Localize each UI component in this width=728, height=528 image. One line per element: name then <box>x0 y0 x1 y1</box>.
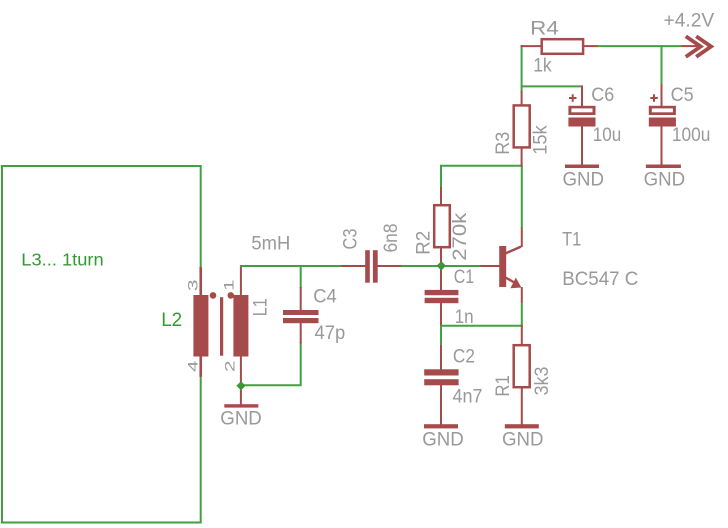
wire R2 top to R3 node <box>441 166 522 188</box>
wire R3 top column <box>521 45 523 92</box>
supply +4.2V symbol <box>682 36 712 57</box>
resistor R2 <box>434 187 450 291</box>
wire to C6 <box>521 85 582 87</box>
svg-text:C3: C3 <box>341 229 362 250</box>
svg-text:BC547 C: BC547 C <box>562 269 638 290</box>
resistor R3 <box>514 91 530 167</box>
svg-text:L1: L1 <box>251 298 272 316</box>
capacitor C5 (polarized) <box>649 84 676 165</box>
capacitor C1 <box>425 290 459 325</box>
wire C5 drop <box>661 45 663 85</box>
svg-text:R3: R3 <box>493 132 514 155</box>
svg-text:3: 3 <box>185 279 201 291</box>
capacitor C4 <box>283 287 319 344</box>
svg-text:C1: C1 <box>454 267 475 288</box>
svg-text:+4.2V: +4.2V <box>664 11 715 32</box>
svg-text:100u: 100u <box>672 125 711 146</box>
svg-text:R4: R4 <box>530 18 559 39</box>
wire L1 top to C3 <box>240 265 342 267</box>
capacitor C2 <box>424 345 458 425</box>
inductor L2 winding <box>193 295 208 357</box>
ground under C5 <box>644 165 686 191</box>
transistor T1 <box>499 228 522 303</box>
wire R4 to supply <box>597 45 683 47</box>
svg-text:15k: 15k <box>531 125 552 155</box>
wire C4 bottom <box>239 342 301 385</box>
svg-text:4n7: 4n7 <box>453 386 483 407</box>
svg-text:2: 2 <box>222 360 238 372</box>
svg-text:270k: 270k <box>450 212 471 261</box>
ground under L2 <box>220 404 261 429</box>
svg-text:47p: 47p <box>315 323 346 344</box>
pin 1 stub <box>240 267 242 297</box>
svg-text:C4: C4 <box>313 286 337 307</box>
svg-text:L2: L2 <box>161 310 182 331</box>
pin 3 stub <box>199 267 202 297</box>
svg-text:GND: GND <box>422 430 464 451</box>
svg-text:GND: GND <box>502 430 544 451</box>
svg-text:5mH: 5mH <box>251 233 290 254</box>
svg-text:T1: T1 <box>562 229 581 250</box>
phase dot L1 <box>228 292 235 299</box>
svg-text:1: 1 <box>221 279 237 291</box>
capacitor C3 <box>341 250 401 283</box>
wire C4 top <box>300 265 302 288</box>
resistor R1 <box>514 325 530 425</box>
svg-text:GND: GND <box>644 169 686 190</box>
pin 2 stub to ground <box>240 355 242 405</box>
ground under C6 <box>563 165 605 191</box>
ground under R1 <box>502 424 544 450</box>
svg-text:6n8: 6n8 <box>381 224 402 253</box>
loop antenna L3 outline (1-turn loop) <box>2 166 201 523</box>
wire C2 top <box>440 325 442 346</box>
svg-text:4: 4 <box>185 360 201 372</box>
svg-text:C5: C5 <box>671 85 694 106</box>
wire emitter node <box>441 302 522 326</box>
svg-text:1n: 1n <box>455 307 474 328</box>
svg-text:C6: C6 <box>591 85 614 106</box>
capacitor C6 (polarized) <box>568 85 595 165</box>
junction node at L1 pin 2 <box>236 381 245 390</box>
svg-text:R1: R1 <box>493 375 514 397</box>
resistor R4 <box>521 39 598 54</box>
svg-text:C2: C2 <box>453 346 475 367</box>
svg-text:10u: 10u <box>593 125 622 146</box>
svg-text:GND: GND <box>563 169 605 190</box>
svg-text:3k3: 3k3 <box>532 367 553 396</box>
wire collector <box>521 165 523 228</box>
junction node at base <box>437 261 446 270</box>
svg-text:1k: 1k <box>533 56 552 77</box>
svg-text:L3... 1turn: L3... 1turn <box>21 249 103 269</box>
transformer core <box>220 297 223 356</box>
phase dot L2 <box>210 292 217 299</box>
svg-text:GND: GND <box>220 408 261 429</box>
inductor L1 winding <box>233 295 248 357</box>
ground under C2 <box>422 424 464 450</box>
transistor T1 base lead <box>481 265 500 267</box>
pin 4 stub <box>199 355 202 377</box>
svg-text:R2: R2 <box>414 231 435 255</box>
wire C3 to base node <box>400 265 482 267</box>
